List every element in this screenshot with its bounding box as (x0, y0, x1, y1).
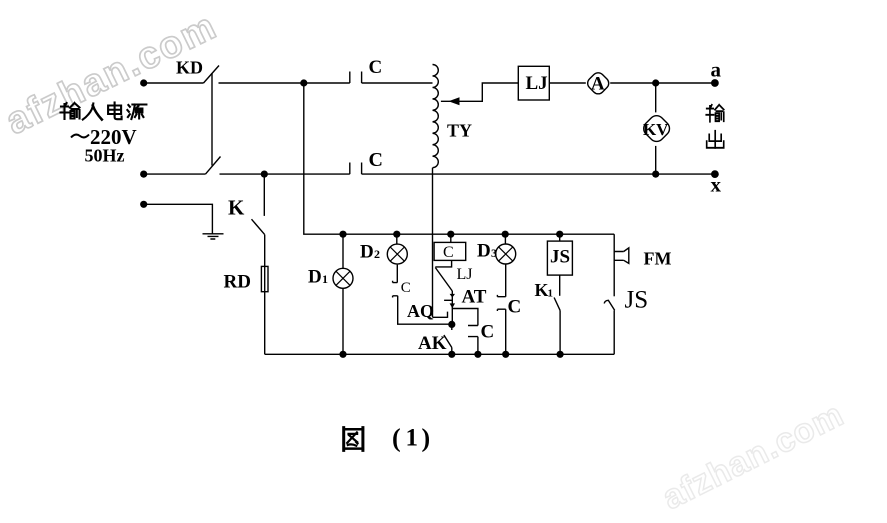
svg-text:AK: AK (418, 333, 447, 354)
svg-text:C: C (369, 57, 383, 78)
svg-text:LJ: LJ (457, 266, 473, 283)
svg-text:D: D (360, 242, 374, 263)
svg-text:LJ: LJ (526, 73, 548, 94)
svg-text:): ) (422, 424, 431, 453)
svg-text:K: K (228, 196, 245, 220)
svg-text:D: D (308, 267, 322, 288)
svg-text:50Hz: 50Hz (85, 146, 125, 166)
svg-text:KV: KV (643, 120, 669, 139)
svg-text:JS: JS (625, 287, 649, 314)
svg-text:C: C (481, 322, 495, 343)
svg-text:1: 1 (322, 272, 328, 286)
svg-text:AQ: AQ (407, 301, 434, 321)
svg-text:1: 1 (548, 288, 554, 300)
svg-text:C: C (443, 244, 454, 261)
svg-text:1: 1 (406, 425, 419, 452)
svg-text:C: C (508, 297, 522, 318)
svg-text:C: C (401, 280, 411, 296)
svg-text:JS: JS (550, 246, 570, 267)
svg-text:C: C (369, 149, 383, 171)
svg-text:afzhan.com: afzhan.com (657, 395, 850, 517)
svg-text:K: K (535, 280, 549, 300)
svg-text:3: 3 (491, 246, 497, 260)
svg-text:D: D (477, 241, 491, 262)
svg-text:RD: RD (224, 272, 251, 293)
svg-text:TY: TY (447, 121, 472, 141)
svg-text:a: a (711, 58, 722, 82)
svg-text:KD: KD (176, 58, 203, 78)
svg-text:A: A (591, 73, 605, 94)
svg-text:AT: AT (462, 287, 487, 308)
svg-text:2: 2 (374, 247, 380, 261)
svg-text:x: x (711, 172, 722, 196)
svg-text:(: ( (392, 424, 401, 453)
svg-text:FM: FM (644, 249, 672, 269)
